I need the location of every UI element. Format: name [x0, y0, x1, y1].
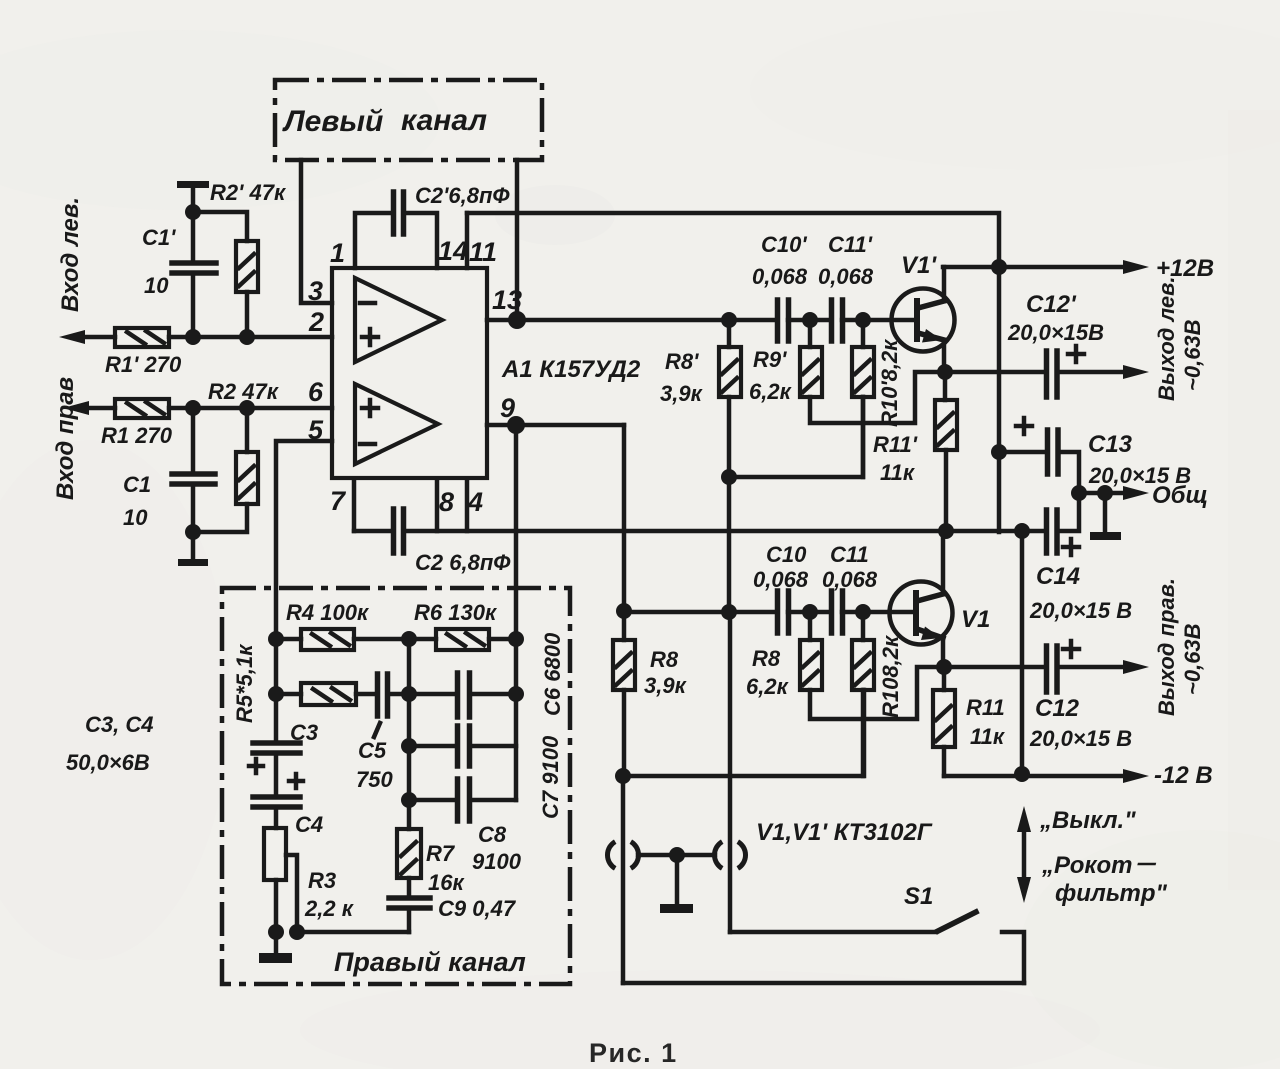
svg-text:20,0×15 В: 20,0×15 В [1029, 598, 1132, 623]
svg-text:50,0×6В: 50,0×6В [66, 750, 150, 775]
capacitor C2 6,8пФ feedback loop pins 7-8 [354, 479, 511, 575]
transistor V1 [890, 531, 991, 667]
svg-text:S1: S1 [904, 883, 933, 910]
node R10 lower top [855, 604, 871, 620]
wire pin 9 row and riser into box [487, 425, 624, 639]
wire from box to pin 3 [301, 160, 332, 303]
svg-text:R2 47к: R2 47к [208, 379, 280, 404]
ground bar at Общ [1090, 493, 1121, 540]
svg-text:„Выкл.": „Выкл." [1039, 807, 1136, 834]
annotation double arrow Выкл/Рокот-фильтр [1017, 806, 1167, 907]
node ground stub between connectors [669, 847, 685, 863]
wire left column of box [274, 639, 279, 743]
svg-text:10: 10 [144, 273, 169, 298]
svg-text:C12: C12 [1035, 695, 1080, 722]
svg-text:0,068: 0,068 [753, 567, 809, 592]
svg-text:C14: C14 [1036, 563, 1080, 590]
svg-text:3,9к: 3,9к [644, 673, 688, 698]
node R4/R6 middle [401, 631, 417, 647]
svg-text:C11: C11 [830, 542, 869, 567]
svg-text:C10': C10' [761, 232, 807, 257]
node C13 top on +12 riser [991, 444, 1007, 460]
svg-text:R1' 270: R1' 270 [105, 352, 182, 377]
ground bar in box [259, 932, 292, 963]
wire lower channel signal row [624, 610, 914, 615]
svg-text:4: 4 [467, 487, 483, 517]
capacitor C4 (electrolytic) [253, 753, 323, 837]
node pin 5 riser at R4 row [268, 631, 284, 647]
terminal T-bar above C1' [177, 181, 209, 212]
capacitor C5 750 [356, 674, 409, 792]
resistor R7 16к [397, 829, 465, 898]
node R8 lower top [721, 604, 737, 620]
svg-text:С7 9100: С7 9100 [538, 735, 563, 819]
wire R8' bottom down to lower row [727, 477, 732, 612]
svg-text:3,9к: 3,9к [660, 381, 704, 406]
op-amp U1 А1 К157УД2 body [332, 268, 641, 478]
node riser on -12 rail [1014, 766, 1030, 782]
capacitor C8 9100 [409, 779, 522, 874]
svg-text:20,0×15В: 20,0×15В [1007, 320, 1104, 345]
capacitor C9 0,47 [389, 896, 517, 932]
node common rail / x1022 riser [1014, 523, 1030, 539]
wire right column of box [514, 639, 519, 800]
resistor R5* 5,1к [232, 643, 377, 723]
svg-text:C9 0,47: C9 0,47 [438, 896, 517, 921]
node R8'/R10' bottom [721, 469, 737, 485]
wire between connectors [638, 853, 715, 858]
wire input right to pin 6 [84, 406, 332, 411]
node R5 left [268, 686, 284, 702]
ground T-bar below C1 [178, 532, 208, 566]
resistor R8' 3,9к [660, 320, 741, 477]
resistor R8 6,2к (lower middle) [746, 612, 944, 719]
node R6 right [508, 631, 524, 647]
wire middle column [407, 639, 412, 829]
svg-text:Выход прав.: Выход прав. [1154, 578, 1179, 716]
node R9' top [802, 312, 818, 328]
wire Общ row [1079, 491, 1128, 496]
svg-text:C5: C5 [358, 738, 387, 763]
node lower row left [616, 603, 632, 619]
node -12 rail left end [615, 768, 631, 784]
svg-text:V1': V1' [901, 252, 937, 279]
svg-text:0,068: 0,068 [822, 567, 878, 592]
svg-text:канал: канал [401, 104, 487, 137]
svg-text:R4 100к: R4 100к [286, 600, 370, 625]
svg-text:~0,63В: ~0,63В [1180, 319, 1205, 391]
wire pin9 branch down to lower row [622, 425, 627, 611]
node Общ left [1071, 485, 1087, 501]
arrow output left [1123, 365, 1149, 379]
svg-text:0,068: 0,068 [818, 264, 874, 289]
wire common rail y531 from pin7 to C14 [354, 529, 1046, 534]
node C1 bottom / ground [185, 524, 201, 540]
resistor R4 100к [276, 600, 409, 650]
capacitor C7 9100 [409, 726, 563, 819]
capacitor C3 (electrolytic) [249, 720, 318, 773]
capacitor C13 20,0x15 В [999, 418, 1191, 493]
svg-text:R3: R3 [308, 868, 336, 893]
wire -12 rail left segment [623, 690, 864, 776]
wire emitter output row right channel [944, 665, 1126, 670]
resistor R2 47к [193, 408, 258, 532]
node R8' top [721, 312, 737, 328]
switch S1 [730, 883, 1024, 983]
connector X2 on right riser [714, 612, 745, 932]
svg-text:0,068: 0,068 [752, 264, 808, 289]
svg-text:Правый канал: Правый канал [334, 947, 526, 977]
resistor R11 11к [933, 667, 1006, 776]
svg-text:750: 750 [356, 767, 393, 792]
svg-text:C1': C1' [142, 225, 176, 250]
svg-text:2: 2 [308, 307, 324, 337]
capacitor C1 [123, 408, 215, 532]
capacitor C1' [142, 212, 216, 337]
svg-text:C3, C4: C3, C4 [85, 712, 153, 737]
svg-text:фильтр": фильтр" [1055, 880, 1167, 907]
wire long top net from pin11/pin13 riser to right column [467, 213, 999, 532]
node R11' bottom on common rail [938, 523, 954, 539]
label C3, C4 50,0x6В [66, 712, 153, 775]
svg-text:8: 8 [439, 487, 454, 517]
svg-text:C1: C1 [123, 472, 151, 497]
node at C1'/R2' top [185, 204, 201, 220]
node R2 top [239, 400, 255, 416]
node R3 bottom [268, 924, 284, 940]
svg-text:Общ: Общ [1152, 482, 1208, 509]
resistor R6 130к [409, 600, 516, 650]
ground bar below connectors [660, 855, 693, 913]
wire -12 rail right segment [944, 774, 1126, 779]
node +12 riser [991, 259, 1007, 275]
transistor V1' [892, 252, 955, 372]
box "Правый канал" (dash-dot frame) [222, 588, 570, 984]
capacitor C10 0,068 [753, 542, 809, 633]
svg-text:R11': R11' [873, 432, 918, 457]
svg-text:-12 В: -12 В [1154, 762, 1213, 789]
wire pin 11 stub [465, 213, 470, 268]
resistor R1 270 [101, 399, 173, 448]
svg-text:R7: R7 [426, 841, 456, 866]
node V1' emitter [937, 364, 953, 380]
svg-text:16к: 16к [428, 870, 465, 895]
wire +12V rail [943, 265, 1126, 270]
svg-text:С2'6,8пФ: С2'6,8пФ [415, 183, 510, 208]
svg-text:R10'8,2к: R10'8,2к [877, 338, 902, 427]
node R3 tap bottom [289, 924, 305, 940]
wire pin 13 signal row [487, 318, 914, 323]
svg-text:R5*5,1к: R5*5,1к [232, 643, 257, 723]
arrow Общ [1123, 486, 1149, 500]
resistor R2' 47к [193, 180, 287, 337]
svg-text:14: 14 [438, 236, 468, 266]
svg-text:Рис. 1: Рис. 1 [589, 1038, 678, 1068]
node ground stub [1097, 485, 1113, 501]
connector X1 on left riser [607, 776, 638, 983]
arrow +12V [1123, 260, 1149, 274]
resistor R9' 6,2к [749, 320, 945, 423]
svg-text:V1: V1 [961, 606, 990, 633]
capacitor C12' 20,0x15В [1007, 291, 1104, 397]
op-amp upper triangle [355, 278, 442, 362]
svg-text:C3: C3 [290, 720, 318, 745]
svg-text:10: 10 [123, 505, 148, 530]
svg-text:13: 13 [492, 285, 522, 315]
capacitor C6 6800 [409, 632, 565, 717]
svg-text:6,2к: 6,2к [746, 674, 790, 699]
svg-text:R6 130к: R6 130к [414, 600, 498, 625]
node C7 left [401, 738, 417, 754]
svg-text:C8: C8 [478, 822, 507, 847]
node pin 13 output [508, 311, 526, 329]
input arrow right channel [63, 401, 89, 415]
node R10' top [855, 312, 871, 328]
arrow -12 [1123, 769, 1149, 783]
svg-text:C11': C11' [828, 232, 873, 257]
resistor R1' 270 [105, 328, 182, 377]
capacitor C11 0,068 [822, 542, 878, 633]
svg-text:R1 270: R1 270 [101, 423, 173, 448]
node pin 9 [507, 416, 525, 434]
svg-text:C4: C4 [295, 812, 323, 837]
wire pin 5 stub and riser into right-channel box [276, 441, 332, 639]
svg-text:1: 1 [330, 238, 345, 268]
node C5/C6 middle column top [401, 686, 417, 702]
node R9 lower top [802, 604, 818, 620]
resistor R10 8,2к (lower) [852, 612, 903, 776]
svg-text:R9': R9' [753, 347, 787, 372]
svg-text:6,2к: 6,2к [749, 379, 793, 404]
wire R10' bottom to R8' bottom [729, 397, 863, 477]
svg-text:„Рокот－: „Рокот－ [1041, 852, 1157, 879]
wire ground row in box [297, 930, 409, 935]
svg-text:11: 11 [469, 237, 497, 267]
svg-text:11к: 11к [970, 724, 1006, 749]
node C1 top [185, 400, 201, 416]
svg-text:6: 6 [308, 377, 324, 407]
svg-text:20,0×15 В: 20,0×15 В [1029, 726, 1132, 751]
svg-text:R8: R8 [650, 647, 679, 672]
svg-text:7: 7 [330, 486, 347, 516]
capacitor C10' 0,068 [752, 232, 808, 341]
wire emitter output row left channel [945, 370, 1126, 375]
wire bottom bus [623, 981, 1024, 986]
svg-text:11к: 11к [880, 460, 916, 485]
svg-text:R2' 47к: R2' 47к [210, 180, 287, 205]
svg-text:~0,63В: ~0,63В [1180, 623, 1205, 695]
svg-text:R11: R11 [966, 695, 1005, 720]
node C6 right [508, 686, 524, 702]
input arrow left channel [59, 330, 85, 344]
svg-text:C13: C13 [1088, 431, 1133, 458]
node V1 emitter [936, 659, 952, 675]
resistor R11' 11к [873, 372, 957, 532]
svg-text:V1,V1' КТ3102Г: V1,V1' КТ3102Г [756, 819, 933, 846]
wire input left to pin 2 [80, 335, 332, 340]
wire riser x1022 down to -12 rail [1020, 531, 1025, 773]
svg-text:C10: C10 [766, 542, 807, 567]
capacitor C14 20,0x15 В [1029, 493, 1132, 623]
op-amp lower triangle [355, 384, 438, 464]
node R2' bottom [239, 329, 255, 345]
svg-text:2,2 к: 2,2 к [304, 896, 355, 921]
box "Левый канал" (dash-dot frame) [275, 80, 542, 160]
svg-text:Выход лев.: Выход лев. [1154, 276, 1179, 401]
svg-text:Левый: Левый [282, 105, 383, 138]
wire from box down to pin13 node [515, 160, 520, 320]
svg-text:3: 3 [308, 276, 323, 306]
resistor R8 3,9к (lower left) [613, 611, 688, 776]
resistor R10' 8,2к [852, 320, 902, 477]
trimmer R3 2,2к [264, 807, 355, 932]
capacitor C2' 6,8пФ feedback loop pins 1-14 [355, 183, 510, 268]
node C1' bottom [185, 329, 201, 345]
svg-text:R8': R8' [665, 349, 699, 374]
svg-text:Вход лев.: Вход лев. [57, 197, 84, 312]
svg-text:C2 6,8пФ: C2 6,8пФ [415, 550, 511, 575]
node C8 left [401, 792, 417, 808]
svg-text:R108,2к: R108,2к [878, 634, 903, 718]
svg-text:9100: 9100 [472, 849, 522, 874]
capacitor C12 20,0x15В [1029, 641, 1132, 751]
svg-text:А1 К157УД2: А1 К157УД2 [501, 356, 641, 383]
svg-text:C12': C12' [1026, 291, 1077, 318]
svg-text:R8: R8 [752, 646, 781, 671]
svg-text:Вход прав: Вход прав [52, 377, 79, 500]
capacitor C11' 0,068 [818, 232, 874, 341]
svg-text:С6 6800: С6 6800 [540, 632, 565, 716]
arrow output right [1123, 660, 1149, 674]
